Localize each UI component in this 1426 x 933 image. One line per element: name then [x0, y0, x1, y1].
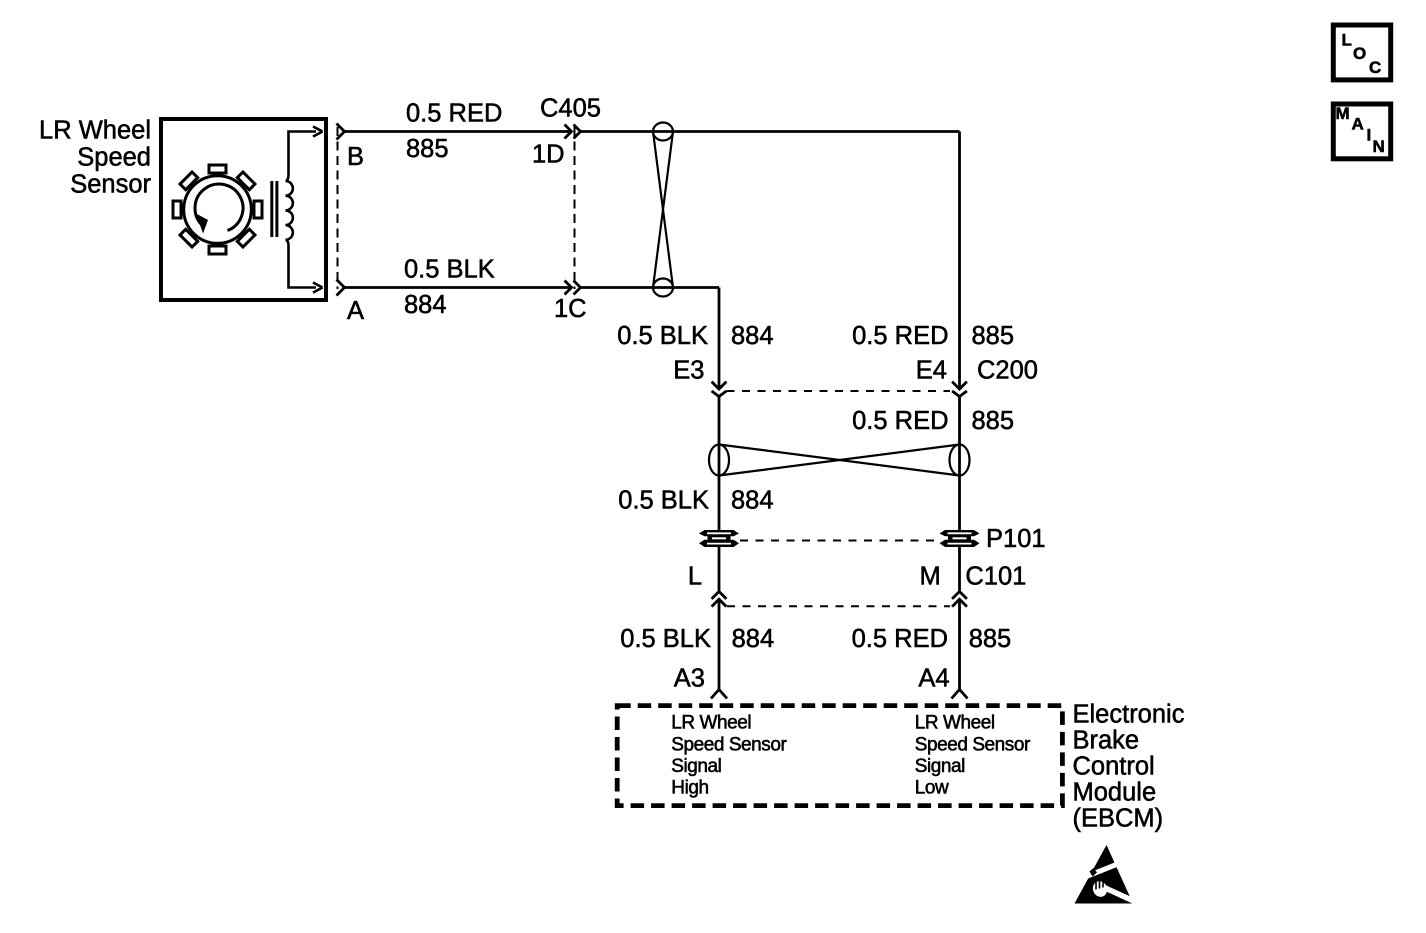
wire coil top lead with arrow — [286, 127, 323, 182]
svg-text:0.5 RED: 0.5 RED — [406, 100, 502, 128]
EBCM module dashed box — [617, 706, 1062, 806]
svg-text:0.5 RED: 0.5 RED — [852, 625, 948, 653]
svg-text:Electronic: Electronic — [1073, 700, 1185, 728]
svg-text:0.5 BLK: 0.5 BLK — [618, 487, 709, 515]
C405 pin 1C chevrons — [565, 281, 581, 295]
svg-text:A: A — [347, 297, 364, 325]
svg-text:885: 885 — [969, 625, 1012, 653]
wire 885 vertical down to C200 — [958, 132, 961, 388]
svg-text:Signal: Signal — [915, 756, 965, 777]
svg-text:High: High — [671, 778, 708, 799]
svg-text:A4: A4 — [918, 664, 949, 692]
svg-text:0.5 RED: 0.5 RED — [852, 407, 948, 435]
svg-text:LR Wheel: LR Wheel — [671, 713, 751, 734]
C101 pin M chevrons — [952, 592, 967, 607]
connector C405 dashed line — [574, 127, 576, 289]
grommet P101 right (wire 885) — [940, 530, 980, 547]
component label: Electronic Brake Control Module (EBCM) — [1073, 700, 1185, 832]
node label: LR Wheel Speed Sensor Signal Low — [915, 713, 1031, 799]
wire 885 C101 to EBCM — [958, 600, 961, 690]
svg-text:Low: Low — [915, 778, 949, 799]
svg-text:885: 885 — [972, 407, 1015, 435]
pin B terminal chevron — [337, 124, 345, 140]
svg-text:885: 885 — [972, 322, 1015, 350]
wire 885 C200 to C101 — [958, 397, 961, 591]
svg-text:Control: Control — [1073, 753, 1155, 781]
svg-text:1C: 1C — [554, 295, 587, 323]
svg-text:Signal: Signal — [671, 756, 721, 777]
sensor connector dashed line — [337, 127, 339, 289]
svg-text:C: C — [1369, 58, 1381, 77]
svg-text:1D: 1D — [532, 141, 565, 169]
connector C101 dashed line — [727, 605, 950, 607]
LR wheel speed sensor component box — [161, 119, 326, 300]
svg-text:0.5 BLK: 0.5 BLK — [617, 322, 708, 350]
node label: LR Wheel Speed Sensor Signal High — [671, 713, 787, 799]
svg-text:L: L — [1342, 31, 1352, 50]
svg-text:Brake: Brake — [1073, 726, 1140, 754]
EBCM pin A4 terminal chevron — [952, 690, 968, 699]
svg-text:A3: A3 — [674, 664, 705, 692]
wire 885 sensor to C405 — [345, 130, 572, 133]
svg-text:P101: P101 — [986, 525, 1046, 553]
svg-text:A: A — [1352, 115, 1364, 134]
svg-text:C200: C200 — [977, 357, 1038, 385]
C101 pin L chevrons — [712, 592, 727, 607]
component label: LR Wheel Speed Sensor — [39, 117, 151, 199]
C405 pin 1D chevrons — [565, 125, 581, 139]
wire 884 vertical down to C200 — [718, 288, 721, 388]
LOC legend box — [1333, 25, 1390, 80]
grommet P101 dashed line — [740, 540, 938, 542]
svg-text:884: 884 — [731, 487, 774, 515]
rotation direction arrow — [195, 184, 243, 233]
svg-text:L: L — [688, 562, 702, 590]
svg-text:(EBCM): (EBCM) — [1073, 805, 1164, 833]
svg-text:O: O — [1353, 44, 1366, 63]
svg-text:E3: E3 — [673, 357, 704, 385]
ESD sensitive device symbol — [1075, 845, 1141, 904]
C200 pin E4 chevrons — [952, 382, 967, 397]
svg-text:885: 885 — [406, 135, 449, 163]
svg-text:B: B — [347, 143, 364, 171]
svg-text:0.5 RED: 0.5 RED — [852, 322, 948, 350]
svg-text:N: N — [1373, 137, 1385, 156]
svg-text:M: M — [1336, 104, 1350, 123]
pin A terminal chevron — [337, 280, 345, 296]
wire 884 sensor to C405 — [345, 286, 572, 289]
MAIN legend box — [1333, 104, 1390, 159]
svg-text:C405: C405 — [540, 95, 601, 123]
C200 pin E3 chevrons — [712, 382, 727, 397]
wire coil bottom lead with arrow — [286, 240, 323, 293]
svg-text:0.5 BLK: 0.5 BLK — [620, 625, 711, 653]
twisted pair symbol (horizontal) — [709, 445, 970, 476]
svg-text:Module: Module — [1073, 779, 1157, 807]
svg-text:Speed: Speed — [77, 144, 151, 172]
pickup coil core — [272, 181, 277, 237]
reluctor toothed wheel — [173, 165, 262, 254]
svg-text:Speed Sensor: Speed Sensor — [671, 734, 787, 755]
wire 884 C101 to EBCM — [718, 600, 721, 690]
svg-text:LR Wheel: LR Wheel — [39, 117, 151, 145]
svg-text:I: I — [1367, 126, 1372, 145]
svg-text:M: M — [920, 562, 941, 590]
svg-text:Speed Sensor: Speed Sensor — [915, 734, 1031, 755]
svg-text:LR Wheel: LR Wheel — [915, 713, 995, 734]
svg-text:884: 884 — [731, 322, 774, 350]
svg-text:884: 884 — [404, 291, 447, 319]
grommet P101 left (wire 884) — [699, 530, 739, 547]
wire 884 C200 to C101 — [718, 397, 721, 591]
EBCM pin A3 terminal chevron — [711, 690, 727, 699]
pickup coil inductor — [286, 181, 293, 240]
svg-text:Sensor: Sensor — [70, 171, 151, 199]
svg-text:C101: C101 — [965, 562, 1026, 590]
twisted pair symbol (vertical) — [653, 123, 673, 297]
svg-text:0.5 BLK: 0.5 BLK — [404, 256, 495, 284]
svg-text:E4: E4 — [916, 357, 947, 385]
wire 884 C405 to corner — [581, 286, 720, 289]
svg-text:884: 884 — [732, 625, 775, 653]
wire 885 C405 to corner — [581, 130, 960, 133]
connector C200 dashed line — [727, 390, 951, 392]
